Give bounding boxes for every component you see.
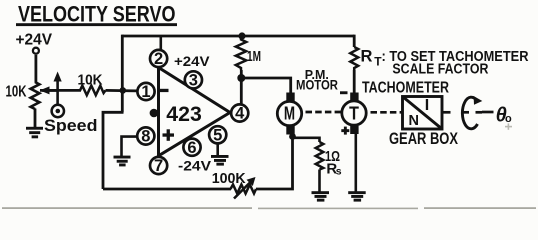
pin 8 (137, 127, 154, 145)
rheostat adjust arrow (234, 177, 256, 199)
tachometer G1 (342, 93, 366, 135)
svg-text:T: T (349, 103, 359, 124)
pin 3 (185, 71, 202, 89)
tach minus sign (340, 91, 348, 94)
svg-text:10K: 10K (6, 84, 28, 101)
svg-text:1M: 1M (247, 49, 261, 65)
wire motor bottom to Rs (293, 138, 320, 142)
op-amp U1 423 triangle (159, 68, 231, 156)
wire Rs to ground (318, 170, 321, 192)
resistor R4 1M (236, 36, 246, 70)
wire RT to tach top (353, 70, 356, 94)
title VELOCITY SERVO (16, 1, 177, 26)
wire pot to ground (34, 109, 37, 128)
ground (pin 5) (211, 155, 229, 166)
pin 2 (150, 50, 167, 68)
gear box N:1 (403, 97, 443, 130)
svg-text:N: N (409, 113, 419, 129)
tach plus sign (341, 127, 349, 135)
label RT: TO SET TACHOMETER SCALE FACTOR (361, 47, 529, 77)
wire feedback jog (103, 112, 124, 189)
svg-text:8: 8 (141, 128, 150, 146)
ground (pin 8) (114, 156, 131, 167)
wire tach bottom to ground (354, 133, 357, 192)
pot wiper arrow (40, 86, 57, 94)
svg-text:VELOCITY SERVO: VELOCITY SERVO (18, 1, 176, 26)
terminal +24V (33, 48, 39, 54)
wire output stub (482, 111, 494, 114)
wire pin2 stub (160, 36, 163, 50)
svg-text:SCALE FACTOR: SCALE FACTOR (392, 62, 488, 78)
wire input node (40, 89, 81, 92)
speed knob indicator arrow (54, 72, 62, 105)
wire pin8 to ground (122, 137, 137, 156)
svg-text:o: o (505, 113, 512, 125)
mechanical coupling motor-tach (dashed) (306, 111, 342, 114)
svg-text:M: M (284, 103, 295, 124)
svg-text:+24V: +24V (16, 32, 53, 49)
pin 7 (150, 157, 167, 175)
svg-text:423: 423 (166, 103, 202, 126)
node 1M top dot (238, 32, 245, 39)
mechanical coupling gearbox-output (dashed) (443, 111, 482, 114)
motor M1 P.M. motor (277, 93, 301, 135)
node motor bottom junction dot (289, 133, 296, 140)
node summing junction dot (120, 87, 127, 94)
svg-text:-24V: -24V (178, 159, 211, 174)
ground (tach) (348, 191, 366, 201)
svg-text:R: R (361, 47, 373, 65)
wire rheostat to motor-bottom node (256, 136, 293, 189)
node theta_o output (496, 104, 512, 126)
ground (Rs) (312, 191, 330, 201)
pin 5 (209, 126, 226, 144)
svg-text:Speed: Speed (44, 117, 98, 135)
wire output to motor top (241, 78, 290, 94)
svg-text:GEAR BOX: GEAR BOX (389, 130, 458, 148)
svg-text:TACHOMETER: TACHOMETER (362, 79, 449, 96)
svg-text:7: 7 (154, 157, 163, 175)
node output junction dot (237, 74, 245, 82)
wire resistor to pin 1 (106, 89, 138, 92)
svg-text:MOTOR: MOTOR (296, 78, 338, 93)
resistor R2 10K (series input) (80, 86, 106, 96)
svg-text:+24V: +24V (174, 54, 210, 69)
svg-text:I: I (425, 97, 429, 114)
svg-text:4: 4 (235, 105, 245, 123)
svg-text:100K: 100K (212, 170, 246, 187)
rotation symbol (462, 96, 482, 129)
svg-text:s: s (336, 166, 342, 178)
svg-text:10K: 10K (78, 72, 103, 89)
mechanical coupling tach-gearbox (dashed) (371, 111, 404, 114)
svg-text:3: 3 (189, 72, 198, 90)
wire bottom feedback rail (103, 188, 231, 191)
op-amp marker blob (150, 109, 159, 118)
potentiometer R1 10K body (31, 82, 40, 109)
svg-text:1: 1 (141, 83, 150, 101)
resistor R6 RT (350, 36, 358, 70)
wire supply to pot (35, 55, 38, 83)
pin 1 (137, 83, 154, 101)
wire 1M to pin4 and motor branch (240, 70, 243, 104)
wire left vertical (rail to summing node) (121, 35, 124, 113)
ground (pot) (26, 127, 43, 138)
rheostat R3 100K body (231, 185, 257, 194)
non-inverting plus sign (163, 129, 175, 141)
scan artifact faint plus (505, 123, 512, 129)
wire top rail (122, 35, 354, 38)
svg-text:6: 6 (187, 139, 196, 157)
inverting input minus sign (160, 89, 169, 92)
label P.M. MOTOR (296, 67, 338, 93)
pin 4 (231, 104, 248, 122)
svg-text:2: 2 (154, 50, 163, 68)
ref label Rs (326, 160, 341, 177)
pin 6 (183, 139, 200, 157)
scan artifact bottom streak (2, 207, 536, 209)
speed knob bullseye (52, 105, 64, 117)
svg-text:5: 5 (213, 127, 222, 145)
resistor R5 Rs 1 ohm (316, 142, 324, 170)
wire pin5 to ground (216, 144, 219, 156)
